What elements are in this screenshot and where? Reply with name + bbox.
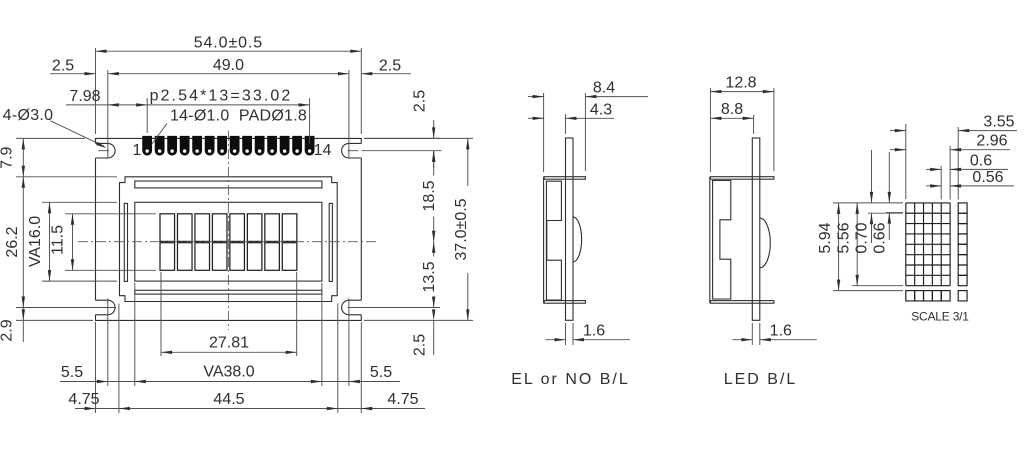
dim 2.5 right bbox=[361, 73, 411, 75]
svg-text:VA16.0: VA16.0 bbox=[27, 216, 44, 267]
EL view dim 4.3 bbox=[565, 114, 567, 134]
right side bar bbox=[329, 203, 332, 281]
svg-text:8.8: 8.8 bbox=[721, 101, 743, 118]
svg-text:2.96: 2.96 bbox=[976, 133, 1007, 150]
mounting slot hole top-left (4-O3.0) bbox=[96, 143, 116, 158]
EL view epoxy blob arc bbox=[573, 217, 582, 262]
dim VA16.0 bbox=[42, 201, 117, 203]
svg-text:EL or NO B/L: EL or NO B/L bbox=[511, 371, 630, 388]
pin header 14 pins p2.54 bbox=[142, 136, 314, 156]
svg-text:27.81: 27.81 bbox=[209, 334, 249, 351]
svg-text:SCALE 3/1: SCALE 3/1 bbox=[911, 309, 969, 323]
mounting slot hole bottom-right bbox=[342, 300, 362, 315]
viewing area window VA38.0 x VA16.0 bbox=[135, 202, 322, 281]
EL view bottom flange tab bbox=[544, 301, 585, 304]
svg-text:2.5: 2.5 bbox=[52, 58, 74, 75]
svg-text:12.8: 12.8 bbox=[725, 74, 756, 91]
svg-text:5.94: 5.94 bbox=[817, 222, 834, 253]
dim 44.5 with 4.75 offsets bbox=[118, 304, 120, 414]
LED view dim 8.8 bbox=[753, 115, 755, 134]
svg-text:26.2: 26.2 bbox=[4, 226, 21, 257]
detail dim 0.56 bbox=[926, 185, 941, 187]
svg-text:4.3: 4.3 bbox=[590, 101, 612, 118]
EL view top flange tab bbox=[544, 177, 585, 180]
svg-text:4.75: 4.75 bbox=[387, 391, 418, 408]
dim 37.0+-0.5 overall height bbox=[364, 137, 473, 139]
svg-text:4-Ø3.0: 4-Ø3.0 bbox=[3, 107, 54, 124]
svg-text:2.9: 2.9 bbox=[0, 319, 16, 341]
svg-text:0.70: 0.70 bbox=[854, 222, 871, 253]
vertical centerline bbox=[227, 131, 229, 330]
LED view bottom flange tab bbox=[710, 301, 774, 304]
svg-text:1: 1 bbox=[133, 142, 142, 159]
dim 7.9 left bbox=[16, 137, 85, 139]
dim 11.5 bbox=[65, 213, 156, 215]
dim 26.2 left bbox=[16, 307, 116, 309]
dim 2.5 top right vertical bbox=[364, 137, 440, 139]
svg-text:5.56: 5.56 bbox=[836, 222, 853, 253]
svg-text:8.4: 8.4 bbox=[593, 80, 615, 97]
svg-text:p2.54*13=33.02: p2.54*13=33.02 bbox=[150, 88, 293, 105]
dim VA38.0 with 5.5 offsets bbox=[134, 283, 136, 386]
svg-text:37.0±0.5: 37.0±0.5 bbox=[453, 198, 470, 260]
svg-text:1.6: 1.6 bbox=[583, 323, 605, 340]
svg-text:49.0: 49.0 bbox=[213, 57, 244, 74]
svg-text:2.5: 2.5 bbox=[412, 334, 429, 356]
svg-text:0.56: 0.56 bbox=[972, 169, 1003, 186]
dot matrix bottom row of next char bbox=[906, 203, 967, 301]
svg-text:54.0±0.5: 54.0±0.5 bbox=[194, 34, 263, 51]
detail dim 5.94 bbox=[833, 202, 903, 204]
dim 2.5 bottom right bbox=[364, 319, 473, 321]
LED view front face bbox=[709, 177, 711, 304]
svg-text:VA38.0: VA38.0 bbox=[203, 364, 254, 381]
dim 13.5 right bbox=[351, 307, 440, 309]
detail dim 0.6 bbox=[940, 166, 942, 200]
EL view front face bbox=[543, 177, 545, 304]
EL view dim 1.6 PCB thickness bbox=[565, 323, 567, 345]
mounting slot hole bottom-left bbox=[96, 300, 116, 315]
svg-text:7.98: 7.98 bbox=[69, 88, 100, 105]
detail dim 0.70 bbox=[868, 212, 903, 214]
dim 7.98 bbox=[66, 104, 147, 106]
dim p2.54*13=33.02 pin pitch bbox=[146, 98, 148, 133]
EL view PCB with pin bbox=[566, 138, 574, 320]
svg-text:14-Ø1.0 PADØ1.8: 14-Ø1.0 PADØ1.8 bbox=[170, 108, 307, 125]
svg-text:0.6: 0.6 bbox=[970, 152, 992, 169]
LED view dim 1.6 PCB thickness bbox=[751, 323, 753, 345]
svg-text:18.5: 18.5 bbox=[421, 180, 438, 211]
EL view glass/backlight profile bbox=[546, 181, 561, 300]
dim 2.5 left bbox=[50, 73, 96, 75]
LED view dim 12.8 bbox=[709, 88, 711, 172]
dim 49.0 bbox=[107, 70, 109, 158]
svg-text:13.5: 13.5 bbox=[421, 261, 438, 292]
svg-text:5.5: 5.5 bbox=[370, 364, 392, 381]
svg-text:11.5: 11.5 bbox=[50, 225, 67, 255]
dim 18.5 right bbox=[433, 151, 435, 176]
svg-text:2.5: 2.5 bbox=[379, 58, 401, 75]
LED view top flange tab bbox=[710, 177, 774, 180]
svg-text:0.66: 0.66 bbox=[872, 222, 889, 253]
LED view PCB with pin bbox=[752, 138, 760, 320]
mounting slot hole top-right bbox=[342, 143, 362, 158]
svg-text:3.55: 3.55 bbox=[983, 114, 1014, 131]
character cell block 8x2 (27.81 x 11.5) bbox=[160, 214, 297, 270]
detail dim 3.55 bbox=[905, 124, 907, 199]
svg-text:44.5: 44.5 bbox=[213, 391, 244, 408]
dim 27.81 char block width bbox=[160, 272, 162, 356]
dim 54.0+-0.5 overall width bbox=[95, 48, 97, 134]
svg-text:2.5: 2.5 bbox=[412, 90, 429, 112]
svg-text:4.75: 4.75 bbox=[68, 391, 99, 408]
svg-text:1.6: 1.6 bbox=[770, 323, 792, 340]
detail dim 0.66 bbox=[886, 212, 903, 214]
bezel frame with stepped corners bbox=[120, 177, 338, 302]
svg-text:LED B/L: LED B/L bbox=[724, 371, 798, 388]
detail dim 2.96 bbox=[949, 146, 951, 200]
bottom polarizer bar bbox=[135, 290, 322, 294]
left side bar bbox=[124, 203, 127, 281]
svg-text:14: 14 bbox=[314, 142, 332, 159]
detail dim 5.56 bbox=[852, 285, 903, 287]
LED view epoxy blob arc bbox=[760, 218, 771, 268]
PCB board outline with corner slots bbox=[96, 138, 362, 320]
top polarizer bar bbox=[135, 181, 322, 188]
LED view glass/backlight profile bbox=[713, 181, 731, 300]
dim 2.9 left bbox=[16, 319, 93, 321]
svg-text:7.9: 7.9 bbox=[0, 146, 16, 168]
EL view dim 8.4 bbox=[543, 93, 545, 172]
horizontal centerline bbox=[78, 241, 378, 243]
svg-text:5.5: 5.5 bbox=[61, 364, 83, 381]
